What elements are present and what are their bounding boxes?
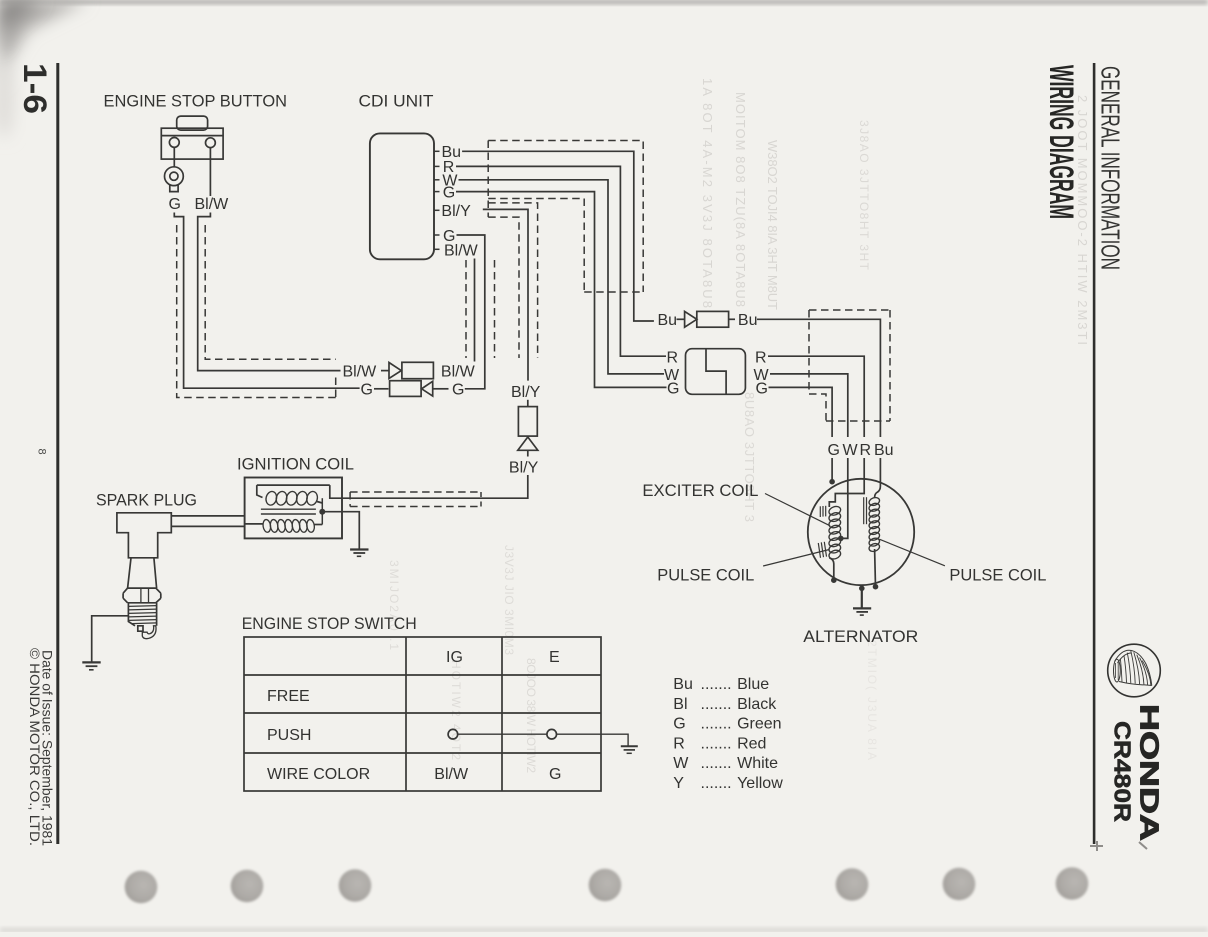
svg-text:E: E	[549, 649, 560, 666]
svg-text:PULSE COIL: PULSE COIL	[949, 566, 1046, 585]
svg-text:WIRE COLOR: WIRE COLOR	[267, 766, 370, 783]
wire Bl/Y from CDI down to diode	[483, 209, 528, 380]
svg-text:8: 8	[36, 449, 48, 455]
svg-text:ENGINE STOP SWITCH: ENGINE STOP SWITCH	[242, 614, 417, 633]
svg-text:Bl/Y: Bl/Y	[441, 203, 471, 220]
svg-text:.......: .......	[701, 716, 732, 733]
svg-text:G: G	[549, 766, 561, 783]
junction W tap	[838, 536, 844, 542]
switch contact E	[547, 729, 557, 739]
wire R from connector to alternator	[768, 356, 864, 437]
main wiring diagram	[82, 92, 1046, 793]
ignition coil T1	[245, 478, 342, 539]
exciter coil core marks	[818, 506, 826, 558]
contact bridge line	[458, 733, 547, 735]
wire G from connector to alternator	[769, 387, 833, 437]
svg-text:Yellow: Yellow	[737, 775, 783, 792]
svg-text:ENGINE STOP BUTTON: ENGINE STOP BUTTON	[104, 92, 288, 111]
svg-text:R: R	[860, 442, 872, 459]
wire W from CDI to connector	[459, 180, 665, 374]
engine stop button SW1	[161, 116, 223, 159]
svg-text:WIRING DIAGRAM: WIRING DIAGRAM	[1042, 65, 1080, 219]
diode D1 (Bu line)	[658, 311, 758, 329]
svg-text:EXCITER COIL: EXCITER COIL	[642, 481, 758, 500]
svg-text:G: G	[361, 382, 373, 399]
bleed-through ghost text (scan artifact)	[387, 78, 1090, 773]
svg-text:CR480R: CR480R	[1110, 721, 1136, 822]
svg-text:1-6: 1-6	[17, 63, 53, 114]
svg-text:G: G	[828, 442, 840, 459]
CDI unit U1	[370, 133, 434, 259]
wire colour legend	[673, 676, 783, 792]
svg-text:.......: .......	[701, 696, 732, 713]
switch contact IG	[448, 729, 458, 739]
junction ignition coil tap	[319, 509, 325, 515]
svg-text:.......: .......	[701, 676, 732, 693]
svg-text:© HONDA MOTOR CO., LTD.: © HONDA MOTOR CO., LTD.	[27, 648, 42, 846]
svg-text:CDI UNIT: CDI UNIT	[359, 92, 434, 111]
pulse coil bottom lead	[874, 549, 877, 587]
connector hook Bl/W	[198, 213, 211, 222]
junction G to frame	[829, 479, 835, 485]
wire G from CDI to connector	[456, 192, 667, 388]
wire Bu from diode to alternator	[757, 319, 880, 437]
wire E contact to ground	[557, 734, 629, 745]
svg-text:IG: IG	[446, 649, 463, 666]
binder holes	[125, 867, 1089, 903]
junction exciter to frame	[831, 577, 837, 583]
wire W into alternator to coil tap	[841, 458, 848, 538]
CDI pin ticks	[434, 151, 440, 249]
svg-text:G: G	[443, 184, 455, 201]
wire R from CDI to connector	[456, 166, 666, 356]
svg-text:Bl/W: Bl/W	[434, 766, 469, 783]
diode D3 (G line)	[361, 381, 465, 399]
wire from button left terminal	[173, 147, 175, 167]
svg-text:PUSH: PUSH	[267, 727, 311, 744]
svg-text:Green: Green	[737, 716, 781, 733]
connector hook G	[174, 213, 183, 222]
diode D4 (Bl/Y line)	[518, 400, 538, 457]
svg-text:Bl: Bl	[673, 696, 687, 713]
svg-text:.......: .......	[701, 755, 732, 772]
svg-text:FREE: FREE	[267, 688, 310, 705]
svg-text:IGNITION COIL: IGNITION COIL	[237, 455, 354, 474]
svg-text:Bl/W: Bl/W	[195, 196, 230, 213]
svg-text:GENERAL INFORMATION: GENERAL INFORMATION	[1096, 66, 1124, 270]
svg-text:Bl/Y: Bl/Y	[509, 460, 539, 477]
svg-text:Bl/W: Bl/W	[441, 363, 476, 380]
pulse coil core marks	[864, 497, 867, 524]
ground (spark plug)	[82, 662, 100, 669]
ground (switch)	[621, 746, 638, 753]
svg-text:R: R	[755, 349, 767, 366]
HT lead (double line)	[171, 516, 244, 527]
wire Bu into alternator to pulse coil	[875, 458, 881, 498]
left margin	[17, 63, 59, 846]
svg-text:G: G	[756, 380, 768, 397]
wire Bl/W vertical from CDI to diode row	[474, 259, 476, 362]
svg-text:MOITOM 8O8 TZU(8A 8OTA8U8: MOITOM 8O8 TZU(8A 8OTA8U8	[733, 92, 748, 307]
svg-text:Bu: Bu	[658, 312, 678, 329]
svg-text:PULSE COIL: PULSE COIL	[657, 566, 754, 585]
leader pulse right	[879, 539, 945, 566]
wire from button right terminal	[209, 148, 211, 196]
wire G into alternator frame	[831, 458, 833, 482]
svg-text:Bl/W: Bl/W	[444, 242, 479, 259]
svg-text:Bu: Bu	[673, 676, 693, 693]
svg-text:G: G	[169, 196, 181, 213]
svg-text:Bu: Bu	[874, 442, 894, 459]
alternator body	[808, 479, 914, 585]
ground (ignition coil)	[350, 550, 368, 557]
exciter coil winding	[828, 505, 842, 561]
svg-text:8U8AO 3JTTO8HT 3: 8U8AO 3JTTO8HT 3	[742, 392, 757, 522]
diode D2 (Bl/W line)	[343, 362, 476, 380]
svg-text:W38O2 TOJI4 8IA 3HT M8UT: W38O2 TOJI4 8IA 3HT M8UT	[765, 140, 780, 310]
svg-text:HONDA: HONDA	[1135, 704, 1165, 841]
ring terminal	[165, 167, 184, 192]
wire G from CDI pin2 down to diode row	[457, 235, 485, 389]
svg-text:.......: .......	[701, 775, 732, 792]
svg-text:White: White	[737, 755, 778, 772]
svg-text:G: G	[452, 382, 464, 399]
leader pulse left	[763, 550, 829, 567]
svg-text:.......: .......	[701, 735, 732, 752]
svg-text:Y: Y	[673, 775, 684, 792]
svg-text:G: G	[667, 380, 679, 397]
svg-text:Bl/W: Bl/W	[343, 363, 378, 380]
switch table	[244, 637, 601, 791]
right margin	[1042, 63, 1165, 844]
connector block (R W G)	[686, 349, 746, 395]
wire W from connector to alternator	[770, 374, 848, 437]
svg-text:SPARK PLUG: SPARK PLUG	[96, 490, 197, 509]
svg-text:Black: Black	[737, 696, 777, 713]
ground (alternator)	[853, 586, 871, 616]
svg-text:Bl/Y: Bl/Y	[511, 384, 541, 401]
harness outline (dashed) around HT lead	[350, 492, 481, 507]
svg-text:R: R	[673, 735, 685, 752]
svg-text:Blue: Blue	[737, 676, 769, 693]
wire coil tap to ground	[322, 512, 359, 549]
svg-text:W: W	[843, 442, 859, 459]
harness outline (dashed) at alternator entry	[809, 310, 890, 421]
junction pulse coil to frame	[873, 584, 879, 590]
wire Bl/Y to ignition coil	[342, 475, 528, 498]
exciter coil bottom lead	[829, 558, 834, 580]
svg-text:W: W	[673, 755, 689, 772]
svg-text:J3V3J JIO 3MI0M3: J3V3J JIO 3MI0M3	[502, 545, 516, 655]
svg-text:Bu: Bu	[738, 312, 758, 329]
wire Bu from CDI to alternator	[462, 151, 654, 321]
svg-text:2TMIO( J3UA 8IA: 2TMIO( J3UA 8IA	[865, 640, 879, 760]
harness outline (dashed) around CDI wires	[466, 141, 643, 359]
svg-text:Red: Red	[737, 735, 766, 752]
leader exciter	[765, 494, 830, 526]
spark plug P1	[117, 513, 171, 639]
wire R into alternator to exciter coil	[829, 458, 864, 507]
svg-text:R: R	[667, 349, 679, 366]
svg-text:G: G	[673, 716, 685, 733]
wire spark plug to ground	[92, 616, 129, 662]
wire Bl/W from button to diode (solid)	[198, 222, 341, 371]
svg-text:ALTERNATOR: ALTERNATOR	[803, 627, 918, 646]
pulse coil winding	[868, 496, 881, 553]
wire G from button to diode (solid)	[184, 222, 360, 389]
harness outline (dashed) around button wires	[177, 225, 336, 398]
